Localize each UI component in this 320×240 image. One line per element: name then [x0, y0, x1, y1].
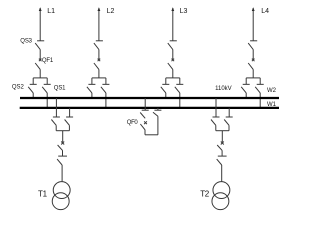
wire to bus W1	[259, 93, 261, 107]
wire	[98, 69, 100, 78]
svg-text:W1: W1	[267, 102, 277, 108]
T2 right stub from W1	[228, 108, 230, 117]
disconnector L2 left	[87, 78, 96, 93]
busbar W2	[20, 97, 279, 99]
disconnector L3	[168, 41, 177, 50]
T2 right disconnector	[224, 117, 233, 125]
wire	[221, 150, 223, 156]
wire to bus W2	[245, 93, 247, 97]
wire	[172, 50, 174, 60]
wire L3 drop	[172, 8, 174, 41]
svg-text:L4: L4	[261, 8, 269, 15]
wire L1 drop	[39, 8, 41, 41]
wire coupler right riser	[157, 116, 159, 135]
wire to T1	[61, 165, 63, 182]
disconnector L4 right	[255, 78, 264, 93]
wire to bus W2	[91, 93, 93, 97]
wire L2 drop	[98, 8, 100, 41]
wire split bar L2	[92, 77, 106, 79]
feeder L1 arrow	[39, 7, 42, 11]
coupler disconnector right	[153, 110, 161, 116]
wire L4 drop	[252, 8, 254, 41]
T1 right disconnector	[65, 117, 74, 125]
disconnector L4	[248, 41, 257, 50]
wire	[252, 50, 254, 60]
wire	[62, 150, 64, 156]
svg-text:QF1: QF1	[42, 58, 54, 64]
wire split bar L1	[33, 77, 47, 79]
T1 right stub from W1	[69, 108, 71, 117]
wire	[39, 50, 41, 60]
wire coupler right drop from W1	[157, 108, 159, 110]
wire coupler bottom bar	[145, 134, 158, 136]
wire	[98, 50, 100, 60]
T1 series disconnector	[57, 156, 67, 165]
svg-text:QS1: QS1	[54, 85, 66, 91]
wire	[68, 125, 70, 130]
wire	[144, 130, 146, 135]
T1 left disconnector	[51, 117, 60, 125]
transformer T1 branch: left stub from W2	[55, 98, 57, 117]
wire T1 merge bar	[56, 130, 69, 132]
transformer T1	[52, 182, 70, 210]
wire to bus W1	[105, 93, 107, 107]
disconnector QS1	[42, 78, 51, 93]
wire to bus W2	[165, 93, 167, 97]
svg-text:L2: L2	[107, 8, 115, 15]
disconnector L3 right	[175, 78, 184, 93]
disconnector L2 right	[101, 78, 110, 93]
coupler disconnector left	[140, 110, 149, 118]
disconnector QS3	[35, 41, 44, 50]
T2 series disconnector	[217, 156, 227, 165]
wire	[215, 125, 217, 130]
wire to T2	[221, 165, 223, 182]
svg-text:T2: T2	[200, 189, 210, 198]
wire	[228, 125, 230, 130]
wire to bus W1	[179, 93, 181, 107]
disconnector L4 left	[241, 78, 250, 93]
disconnector QS2	[28, 78, 37, 93]
breaker QF0	[140, 121, 147, 130]
transformer T2 branch: left stub from W2	[215, 98, 217, 117]
wire T2 center drop	[221, 131, 223, 143]
breaker L2	[94, 59, 100, 70]
wire split bar L3	[166, 77, 180, 79]
disconnector L2	[94, 41, 103, 50]
wire to bus W2	[32, 93, 34, 97]
wire	[39, 69, 41, 78]
disconnector L3 left	[161, 78, 170, 93]
breaker L3	[168, 59, 174, 70]
breaker T2	[217, 142, 224, 151]
wire split bar L4	[246, 77, 260, 79]
svg-text:QS2: QS2	[12, 84, 25, 90]
feeder L2 arrow	[98, 7, 101, 11]
svg-text:T1: T1	[38, 189, 48, 198]
svg-text:L1: L1	[47, 8, 55, 15]
transformer T2	[212, 182, 230, 210]
wire to bus W1	[46, 93, 48, 107]
breaker QF1	[35, 59, 41, 70]
svg-text:QS3: QS3	[20, 39, 32, 45]
wire	[172, 69, 174, 78]
wire	[55, 125, 57, 130]
svg-text:110kV: 110kV	[215, 86, 232, 92]
feeder L3 arrow	[171, 7, 174, 11]
svg-text:QF0: QF0	[127, 120, 139, 126]
busbar W1	[20, 107, 279, 109]
svg-text:W2: W2	[267, 88, 277, 94]
wire	[252, 69, 254, 78]
breaker T1	[58, 142, 65, 151]
wire T2 merge bar	[216, 130, 229, 132]
T2 left disconnector	[211, 117, 220, 125]
feeder L4 arrow	[252, 7, 255, 11]
bus coupler QF0 left drop from W2	[144, 98, 146, 110]
breaker L4	[248, 59, 254, 70]
svg-text:L3: L3	[180, 8, 188, 15]
wire T1 center drop	[62, 131, 64, 143]
